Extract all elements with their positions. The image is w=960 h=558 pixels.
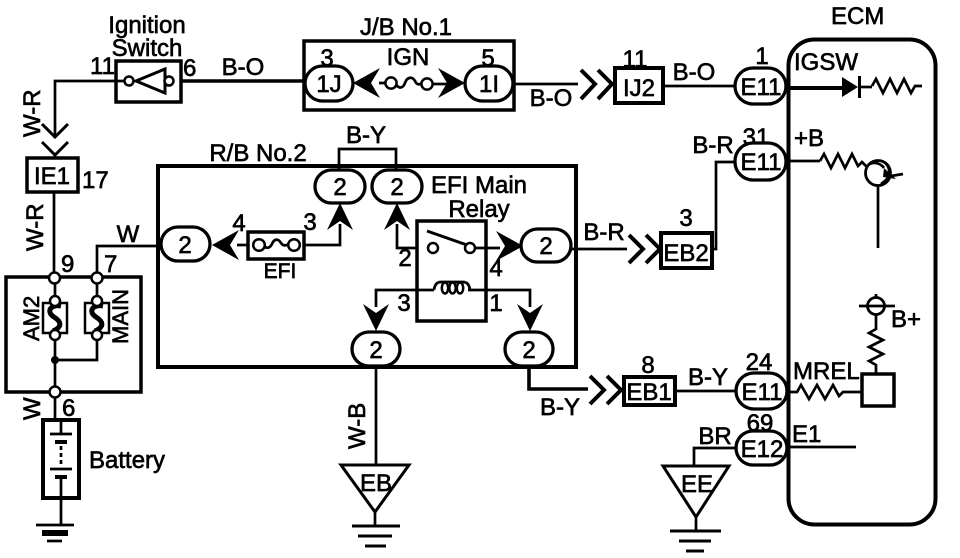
junction dot	[51, 356, 59, 364]
ignition switch contact wire	[116, 80, 125, 83]
svg-text:B-Y: B-Y	[688, 364, 728, 391]
svg-text:IGN: IGN	[387, 44, 430, 71]
connector E11 pin31 oval	[735, 143, 786, 180]
svg-text:W-R: W-R	[22, 203, 49, 251]
fuse EFI box	[248, 232, 304, 259]
wire top-right oval down to relay pin 2	[397, 224, 428, 248]
resistor R4 MREL	[788, 385, 862, 399]
wire diode to resistor	[861, 86, 872, 89]
arrow up into top-right oval	[384, 203, 410, 230]
svg-text:2: 2	[333, 174, 346, 201]
fusible link AM2	[43, 283, 67, 360]
relay switch blade	[427, 231, 467, 245]
relay coil wire left	[417, 289, 434, 292]
arrow left into oval	[212, 230, 239, 260]
fuse EFI left circle	[253, 239, 265, 251]
svg-text:7: 7	[104, 251, 117, 278]
svg-text:2: 2	[522, 337, 535, 364]
wire node 6 to battery	[54, 397, 57, 420]
svg-text:AM2: AM2	[19, 296, 44, 341]
battery box	[43, 420, 79, 498]
svg-text:+B: +B	[794, 125, 824, 152]
ECM box	[789, 40, 936, 525]
connector E11 pin24 oval	[736, 373, 787, 409]
node 6 circle	[50, 387, 61, 398]
svg-text:Relay: Relay	[448, 196, 509, 223]
svg-text:6: 6	[62, 395, 75, 422]
arrow up into top-left oval	[327, 203, 353, 230]
node 9 circle	[49, 273, 60, 284]
svg-text:EB1: EB1	[626, 379, 671, 406]
relay coil wire right	[468, 289, 486, 292]
relay contact left circle	[428, 243, 438, 253]
junction connector EB1 box	[624, 377, 675, 405]
wire fuse to top-left oval	[304, 224, 340, 245]
svg-text:B-R: B-R	[583, 219, 624, 246]
svg-text:3: 3	[679, 205, 692, 232]
svg-text:2: 2	[539, 233, 552, 260]
svg-text:8: 8	[641, 352, 654, 379]
svg-text:9: 9	[61, 251, 74, 278]
svg-text:IJ2: IJ2	[623, 75, 655, 102]
svg-text:IE1: IE1	[34, 163, 70, 190]
wire B-O ignition to J/B	[181, 79, 304, 83]
svg-text:W: W	[19, 397, 46, 420]
connector 1J oval	[305, 66, 353, 101]
wire coil pin 3 to bottom-left oval	[376, 290, 417, 307]
svg-text:EFI: EFI	[264, 260, 297, 283]
svg-text:BR: BR	[698, 423, 731, 450]
connector oval 2 bottom-left	[352, 332, 400, 366]
svg-text:EFI Main: EFI Main	[431, 172, 527, 199]
svg-text:E12: E12	[741, 436, 784, 463]
wire IJ2 to E11	[663, 85, 736, 88]
resistor R2 +B	[820, 154, 867, 168]
wire W-R from ignition switch pin 11 going left and down	[55, 81, 116, 136]
circled arrow symbol	[866, 161, 904, 186]
svg-text:E11: E11	[741, 74, 782, 101]
connector 1I oval	[465, 66, 513, 101]
wire E12 to EE ground	[694, 448, 736, 466]
svg-text:2: 2	[369, 337, 382, 364]
driver block square	[862, 374, 894, 406]
node 7 circle	[92, 273, 103, 284]
relay K1 box	[417, 221, 486, 321]
svg-text:W: W	[117, 221, 140, 248]
svg-text:11: 11	[623, 46, 648, 73]
resistor R3 vertical	[869, 315, 883, 376]
fusible link box	[6, 277, 141, 392]
ground EB symbol	[352, 526, 400, 546]
svg-text:MREL: MREL	[793, 358, 860, 385]
wire relay pin 4	[475, 247, 500, 250]
svg-text:E11: E11	[742, 379, 783, 406]
wire bottom-right oval to chevrons	[529, 366, 588, 389]
svg-text:R/B No.2: R/B No.2	[209, 140, 306, 167]
ground EB stem	[374, 512, 377, 525]
connector oval 2 top-right	[372, 170, 422, 203]
fuse IGN right arrow	[438, 68, 465, 98]
fuse IGN right circle	[421, 78, 432, 89]
wire EB1 to E11 pin24	[675, 390, 736, 393]
wire junction to node 6	[54, 360, 57, 386]
svg-text:J/B No.1: J/B No.1	[360, 14, 452, 41]
svg-text:17: 17	[82, 167, 109, 194]
connector oval 2 bottom-right	[505, 332, 553, 366]
ground EE symbol	[670, 531, 721, 551]
ignition switch S1 box	[116, 61, 181, 102]
svg-text:2: 2	[398, 245, 411, 272]
svg-text:B-Y: B-Y	[540, 394, 580, 421]
svg-text:11: 11	[90, 53, 115, 80]
connector oval 2 right edge	[521, 229, 571, 262]
battery positive symbol B+	[859, 294, 895, 315]
fusible link MAIN	[58, 283, 109, 360]
ground triangle EE	[663, 466, 729, 517]
svg-text:B-O: B-O	[530, 85, 573, 112]
diode D1 bar	[858, 76, 861, 98]
fuse IGN left circle	[385, 77, 396, 88]
connector IE1 box	[27, 158, 78, 192]
arrow down into bottom-left oval	[363, 304, 389, 331]
fuse IGN left arrow	[353, 68, 380, 98]
junction connector IJ2 box	[615, 68, 663, 103]
svg-text:1I: 1I	[479, 71, 499, 98]
label EFI Main Relay	[431, 172, 527, 223]
connector E12 pin69 oval	[736, 431, 787, 465]
wire E1 stub	[787, 446, 856, 449]
chevron arrows to EB1	[590, 376, 621, 404]
svg-text:B-O: B-O	[222, 54, 265, 81]
svg-text:3: 3	[397, 290, 410, 317]
svg-text:1: 1	[489, 290, 502, 317]
wire +B	[787, 160, 820, 163]
svg-text:E1: E1	[792, 421, 821, 448]
wire arrow to fuse EFI	[237, 244, 250, 247]
resistor R1 IGSW	[872, 79, 922, 93]
connector E11 pin1 oval	[735, 68, 786, 104]
ignition switch triangle	[136, 69, 165, 93]
svg-text:3: 3	[320, 45, 333, 72]
svg-text:EB2: EB2	[663, 240, 708, 267]
connector oval 2 left edge	[161, 227, 210, 261]
connector oval 2 top-left	[315, 170, 365, 203]
wire bottom-left oval to EB ground	[375, 366, 378, 465]
wire 1I to chevrons	[513, 83, 578, 86]
svg-text:5: 5	[481, 45, 494, 72]
diode D1 triangle	[842, 77, 858, 97]
ignition switch left contact circle	[125, 77, 134, 86]
battery ground stem	[60, 498, 63, 524]
svg-text:2: 2	[178, 232, 191, 259]
wire IGSW thick	[789, 86, 842, 90]
fuse EFI wire squiggle	[264, 240, 289, 248]
svg-text:EE: EE	[681, 471, 713, 498]
wire EB2 up to E11 pin31	[712, 162, 735, 249]
svg-text:EB: EB	[360, 470, 392, 497]
ignition switch right contact circle	[165, 77, 174, 86]
ground triangle EB	[341, 465, 409, 512]
relay contact right circle	[465, 243, 475, 253]
wire ignition down chevrons	[42, 124, 68, 155]
svg-text:1J: 1J	[316, 71, 341, 98]
svg-text:E11: E11	[741, 149, 782, 176]
svg-text:B-R: B-R	[692, 132, 733, 159]
arrow right into oval 2	[496, 231, 523, 261]
wire node 7 to R/B oval	[97, 246, 161, 273]
chevron arrows to EB2	[629, 235, 660, 263]
chevron arrows to IJ2	[581, 70, 612, 99]
svg-text:B-O: B-O	[673, 59, 716, 86]
fuse EFI right circle	[288, 239, 300, 251]
junction block J/B No.1 box	[304, 41, 514, 110]
svg-text:IGSW: IGSW	[794, 49, 858, 76]
svg-text:2: 2	[390, 174, 403, 201]
wire oval to chevrons B-R	[571, 248, 627, 251]
svg-text:6: 6	[183, 55, 196, 82]
svg-text:MAIN: MAIN	[108, 289, 133, 344]
svg-text:Switch: Switch	[112, 35, 183, 62]
relay block R/B No.2 box	[158, 166, 576, 367]
svg-text:B-Y: B-Y	[346, 122, 386, 149]
wire B-Y bridge	[339, 149, 396, 170]
wire coil pin 1 to bottom-right oval	[486, 290, 530, 307]
fuse IGN wire	[379, 78, 447, 88]
svg-text:Battery: Battery	[89, 447, 165, 474]
wire chevrons to IE1	[54, 153, 57, 159]
junction connector EB2 box	[661, 233, 712, 268]
svg-text:1: 1	[755, 43, 768, 70]
arrow down into bottom-right oval	[517, 304, 543, 331]
svg-text:B+: B+	[891, 306, 921, 333]
wire IE1 down to node 9	[53, 192, 56, 273]
label Ignition Switch	[108, 12, 185, 62]
svg-text:ECM: ECM	[831, 3, 884, 30]
ground EE stem	[695, 517, 698, 530]
relay coil	[434, 282, 470, 294]
svg-text:W-R: W-R	[19, 89, 46, 137]
svg-text:4: 4	[489, 255, 502, 282]
wire stub down from circled arrow	[877, 186, 880, 248]
svg-text:4: 4	[232, 210, 245, 237]
battery ground symbol	[36, 525, 74, 541]
battery symbol	[50, 420, 72, 498]
svg-text:3: 3	[303, 209, 316, 236]
svg-text:W-B: W-B	[344, 403, 371, 449]
